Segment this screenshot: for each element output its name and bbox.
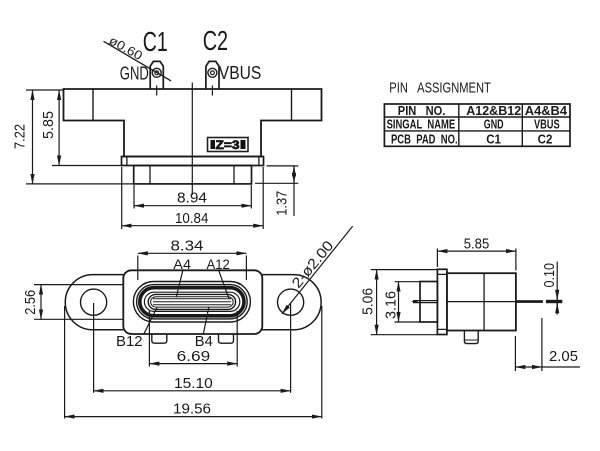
svg-text:GND: GND: [484, 118, 504, 132]
svg-text:C1: C1: [486, 132, 501, 147]
svg-text:ø0.60: ø0.60: [107, 33, 145, 63]
svg-text:SINGAL NAME: SINGAL NAME: [387, 118, 456, 132]
svg-text:A12&B12: A12&B12: [466, 103, 521, 118]
svg-text:Z=3: Z=3: [216, 138, 240, 152]
svg-text:5.85: 5.85: [41, 111, 57, 139]
svg-text:PIN NO.: PIN NO.: [398, 103, 446, 118]
svg-text:5.85: 5.85: [464, 236, 490, 252]
svg-text:C2: C2: [203, 25, 228, 56]
svg-text:10.84: 10.84: [175, 211, 208, 227]
svg-text:GND: GND: [120, 64, 149, 84]
svg-text:PCB PAD NO.: PCB PAD NO.: [391, 132, 458, 147]
svg-text:19.56: 19.56: [173, 402, 211, 418]
svg-text:5.06: 5.06: [361, 288, 377, 315]
svg-text:8.94: 8.94: [177, 191, 207, 207]
svg-text:A12: A12: [207, 256, 230, 272]
svg-text:2.05: 2.05: [549, 349, 578, 365]
svg-text:VBUS: VBUS: [534, 118, 560, 132]
svg-text:A4: A4: [173, 256, 191, 272]
svg-text:PIN ASSIGNMENT: PIN ASSIGNMENT: [389, 79, 491, 96]
svg-text:A4&B4: A4&B4: [525, 103, 568, 118]
svg-text:B12: B12: [116, 333, 143, 350]
svg-text:3.16: 3.16: [384, 291, 400, 319]
svg-text:15.10: 15.10: [174, 376, 213, 392]
svg-text:C2: C2: [538, 132, 553, 147]
svg-text:VBUS: VBUS: [219, 63, 261, 83]
svg-text:C1: C1: [143, 26, 168, 57]
svg-text:B4: B4: [195, 333, 213, 350]
svg-text:6.69: 6.69: [177, 349, 211, 365]
svg-text:0.10: 0.10: [542, 263, 558, 288]
svg-text:2.56: 2.56: [23, 290, 39, 315]
svg-text:1.37: 1.37: [275, 191, 291, 216]
svg-text:8.34: 8.34: [171, 239, 204, 255]
svg-text:7.22: 7.22: [13, 124, 29, 149]
